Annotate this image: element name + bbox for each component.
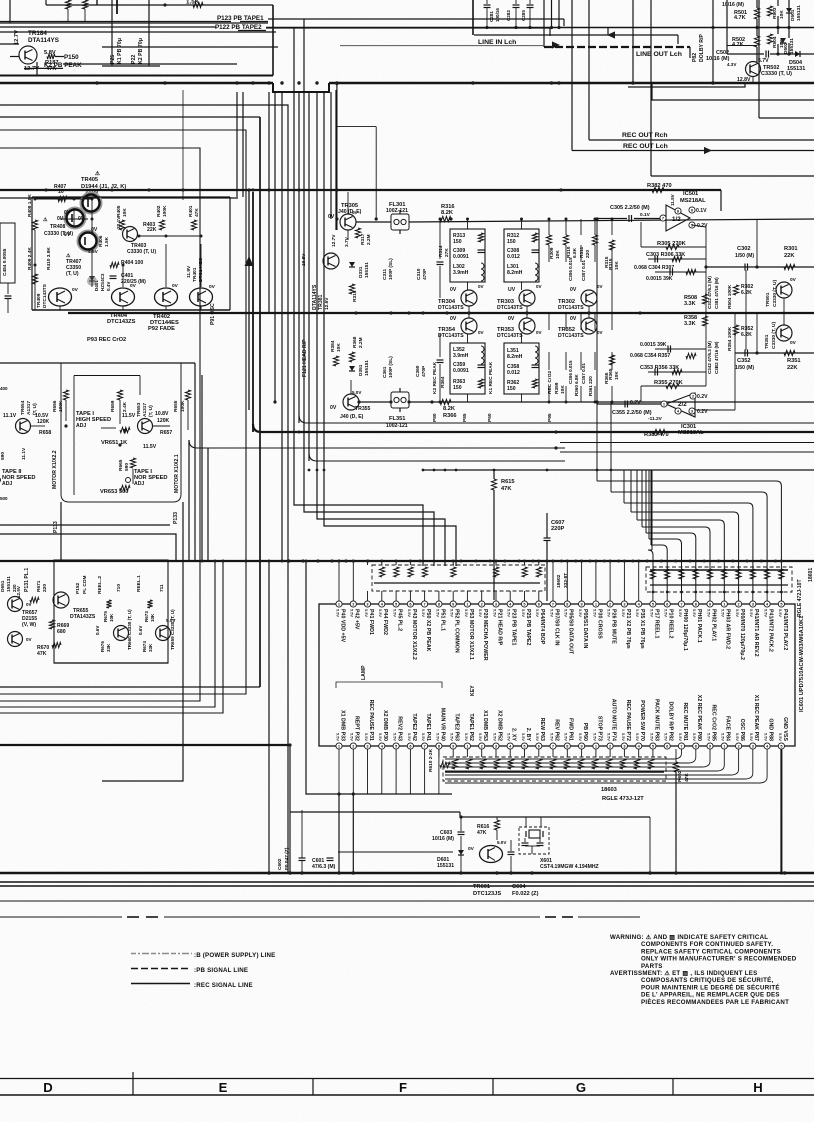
wire y176 right	[651, 175, 814, 177]
wire y27 left	[0, 26, 216, 28]
svg-text:4.7K: 4.7K	[734, 15, 746, 21]
network 18603 resistor 3	[480, 759, 485, 769]
svg-text:C3330 (T, U): C3330 (T, U)	[771, 321, 777, 349]
wire x789	[788, 0, 790, 8]
svg-text:C3B2 47/16 (M): C3B2 47/16 (M)	[714, 341, 719, 374]
svg-text:7: 7	[552, 743, 554, 748]
svg-text:R309: R309	[549, 247, 555, 259]
svg-text:10.8V: 10.8V	[301, 253, 307, 266]
network 18602 resistor 3	[408, 567, 413, 577]
network 18602 resistor 1	[380, 567, 385, 577]
svg-text:47K: 47K	[37, 651, 47, 657]
svg-text:C353 R356 33K: C353 R356 33K	[640, 365, 679, 371]
svg-text:150: 150	[453, 239, 462, 245]
svg-text:R401: R401	[188, 205, 194, 217]
wire loop y707	[0, 561, 215, 707]
svg-text:DTC143TS: DTC143TS	[558, 305, 584, 311]
svg-text:D351: D351	[358, 364, 364, 376]
svg-text:5.5V: 5.5V	[564, 733, 569, 741]
svg-text:47/6.3 (M): 47/6.3 (M)	[312, 864, 336, 870]
svg-text:P22: P22	[131, 55, 137, 64]
svg-text:DTC143TS: DTC143TS	[497, 305, 523, 311]
svg-text:5.5V: 5.5V	[607, 609, 612, 617]
svg-text:5.5V: 5.5V	[564, 609, 569, 617]
wire bottom right S curves	[445, 749, 682, 759]
wire y852	[338, 851, 453, 853]
svg-text:10K: 10K	[122, 208, 128, 217]
svg-text:K2 PB 70μ: K2 PB 70μ	[138, 38, 144, 64]
svg-text:0.2V: 0.2V	[630, 400, 641, 406]
svg-text:C302: C302	[737, 246, 751, 252]
svg-text:5.5V: 5.5V	[764, 609, 769, 617]
svg-text:0V: 0V	[330, 405, 337, 411]
svg-text:MOTOR X1/X2.2: MOTOR X1/X2.2	[52, 450, 58, 489]
svg-text:10.8V: 10.8V	[155, 411, 169, 417]
svg-text:PL COM: PL COM	[82, 575, 88, 594]
svg-text:2/2: 2/2	[678, 401, 687, 408]
wire motor inner box	[73, 376, 75, 496]
transistor TR303 DTC143TS	[519, 290, 535, 306]
svg-text:0V: 0V	[478, 284, 484, 289]
svg-text:P85: P85	[462, 413, 468, 422]
network 18603 resistor 8	[550, 759, 555, 769]
svg-text:COMPONENTS FOR CONTINUED SAFET: COMPONENTS FOR CONTINUED SAFETY.	[641, 941, 773, 948]
svg-text:D: D	[43, 1080, 52, 1095]
wire eq stubs top row	[467, 219, 469, 229]
svg-text:R657: R657	[160, 430, 172, 436]
svg-text:5.5V: 5.5V	[549, 733, 554, 741]
svg-text:A1317: A1317	[26, 401, 32, 415]
svg-text:C3330 (T, U): C3330 (T, U)	[127, 249, 156, 255]
svg-text:MS218AL: MS218AL	[680, 198, 706, 204]
svg-text:6.8K: 6.8K	[572, 247, 578, 258]
transistor TR351	[776, 325, 792, 341]
network 18603 resistor 2	[466, 759, 471, 769]
svg-text:TR405: TR405	[81, 177, 98, 183]
wire LINE OUT dashed	[544, 46, 690, 48]
svg-text:2: 2	[609, 601, 611, 606]
transistor TR353 DTC143TS	[519, 318, 535, 334]
svg-text:LINE OUT Lch: LINE OUT Lch	[636, 51, 682, 58]
svg-text:R384: R384	[330, 340, 336, 352]
wire motor internals	[65, 400, 67, 421]
svg-text:R405: R405	[116, 205, 122, 217]
svg-text:5.5V: 5.5V	[535, 609, 540, 617]
svg-text:3.9mH: 3.9mH	[453, 353, 469, 359]
grid tick x673	[672, 1079, 674, 1096]
capacitor C285	[527, 4, 534, 6]
network 18603 resistor 7	[536, 759, 541, 769]
svg-text:5.5V: 5.5V	[507, 733, 512, 741]
wire 18603 bus	[445, 771, 664, 773]
svg-text:5.5V: 5.5V	[621, 733, 626, 741]
svg-text:150: 150	[453, 385, 462, 391]
svg-text:RGLE 472J-10T: RGLE 472J-10T	[797, 579, 803, 617]
wire y118 right	[759, 117, 814, 119]
svg-text:0V: 0V	[790, 277, 797, 283]
svg-text:8.2mH: 8.2mH	[507, 270, 523, 276]
svg-text:REEL.1: REEL.1	[136, 575, 142, 592]
wire cascade risers	[623, 470, 625, 503]
svg-text:R305 270K: R305 270K	[657, 241, 687, 247]
resistor network RGLE 472J-10T dashed box	[646, 567, 792, 592]
svg-text:R673: R673	[144, 611, 149, 622]
svg-text:33K: 33K	[148, 643, 153, 652]
transistor TR501	[776, 282, 792, 298]
svg-text:0V: 0V	[72, 287, 79, 293]
wire vertical x713	[712, 0, 714, 83]
svg-text:4.3V: 4.3V	[727, 62, 736, 67]
network 472J resistor 3	[679, 569, 684, 579]
svg-text:0V: 0V	[570, 287, 577, 293]
wire row y54	[727, 53, 764, 55]
svg-text:DTC143TS: DTC143TS	[42, 284, 48, 308]
svg-text:5.5V: 5.5V	[364, 733, 369, 741]
wire vertical x589 REC OUT Rch	[588, 0, 590, 140]
junction dots TR cluster	[34, 198, 37, 201]
wire bundle x237	[236, 92, 238, 197]
svg-text:P131 PL.1: P131 PL.1	[24, 568, 30, 592]
wire x269 down	[268, 561, 270, 873]
svg-text:DTC123JS: DTC123JS	[473, 891, 501, 897]
wire left edge x8	[7, 283, 9, 294]
svg-text:0.0015 39K: 0.0015 39K	[640, 342, 667, 348]
network 472J resistor 7	[736, 569, 741, 579]
svg-text:0.1V: 0.1V	[696, 208, 707, 214]
svg-text:5.0V: 5.0V	[352, 390, 361, 395]
svg-text:C381 47/16 (M): C381 47/16 (M)	[714, 277, 719, 309]
network 18603 resistor 4	[494, 759, 499, 769]
svg-text:R504 100K: R504 100K	[727, 284, 733, 309]
svg-text:R361 220: R361 220	[588, 376, 593, 396]
svg-text:C311: C311	[382, 268, 388, 280]
wire bundle x299	[298, 92, 300, 423]
svg-text:TR654: TR654	[20, 400, 26, 415]
svg-text:150: 150	[507, 386, 516, 392]
wire bundle x304 v	[304, 19, 434, 566]
capacitor C281 100/16	[484, 4, 491, 6]
svg-text:33K: 33K	[106, 643, 111, 652]
network 18603 resistor 15	[648, 759, 653, 769]
svg-text:F0.022 (Z): F0.022 (Z)	[512, 891, 539, 897]
svg-text:R602: R602	[677, 770, 683, 782]
wire x183 v	[182, 90, 184, 200]
wire bridge y126	[337, 126, 376, 128]
svg-text:5.5V: 5.5V	[764, 733, 769, 741]
svg-text:5.5V: 5.5V	[678, 733, 683, 741]
svg-text:C310: C310	[416, 268, 422, 280]
svg-text:5.5V: 5.5V	[621, 609, 626, 617]
svg-text:18603: 18603	[601, 787, 617, 793]
svg-text:220: 220	[585, 250, 591, 258]
svg-text:P152: P152	[75, 582, 81, 594]
svg-text:5.5V: 5.5V	[492, 733, 497, 741]
svg-text:F0.047 (Z): F0.047 (Z)	[284, 847, 290, 870]
svg-text:1/50 (M): 1/50 (M)	[735, 365, 754, 371]
svg-text:5.5V: 5.5V	[692, 609, 697, 617]
svg-text:5.5V: 5.5V	[749, 609, 754, 617]
wire y100 right	[652, 83, 814, 100]
wire TR cluster box	[32, 196, 230, 198]
svg-text:VR651 1K: VR651 1K	[101, 440, 128, 446]
svg-text:1/2: 1/2	[672, 216, 681, 223]
svg-text:12.6V: 12.6V	[324, 297, 330, 310]
svg-text:10K: 10K	[560, 385, 566, 394]
svg-text:C307 0.01: C307 0.01	[581, 260, 586, 281]
svg-text:F: F	[399, 1080, 407, 1095]
svg-text:5.5V: 5.5V	[721, 609, 726, 617]
legend REC signal line	[131, 983, 190, 985]
svg-text:0V: 0V	[468, 846, 475, 852]
svg-text:REEL..2: REEL..2	[97, 576, 103, 594]
network 18603 resistor 11	[592, 759, 597, 769]
op-amp IC301 MS218AL 2/2	[666, 393, 695, 417]
svg-text:TR659 C3330 (T, U): TR659 C3330 (T, U)	[170, 609, 175, 650]
network 18603 resistor 14	[634, 759, 639, 769]
svg-text:5.5V: 5.5V	[635, 609, 640, 617]
wire thick bus y75	[0, 75, 273, 77]
svg-text:10K: 10K	[779, 10, 785, 19]
wire bundle x331 v	[330, 92, 332, 219]
svg-text:2: 2	[352, 601, 354, 606]
wire vertical x149	[148, 0, 150, 66]
svg-text:P150: P150	[64, 54, 79, 61]
svg-text:5.5V: 5.5V	[435, 609, 440, 617]
svg-text:5.0V: 5.0V	[166, 618, 175, 623]
svg-text:5.0V: 5.0V	[497, 840, 506, 845]
svg-text:D502: D502	[783, 42, 789, 54]
wire TR355 stub	[350, 380, 352, 394]
svg-text:2: 2	[738, 743, 740, 748]
svg-text:P92 FADE: P92 FADE	[148, 326, 175, 332]
wire 18602 bus	[374, 582, 540, 584]
svg-text:0V: 0V	[209, 284, 216, 290]
svg-text:PIÈCES RECOMMANDEES PAR LE FAB: PIÈCES RECOMMANDEES PAR LE FABRICANT	[641, 998, 789, 1006]
svg-text:120K: 120K	[37, 419, 50, 425]
svg-text:K1 PB 70μ: K1 PB 70μ	[117, 38, 123, 64]
svg-text:0V: 0V	[352, 210, 358, 215]
network 18602 resistor 2	[394, 567, 399, 577]
svg-text:TR408: TR408	[50, 224, 66, 230]
capacitor C282	[513, 4, 520, 6]
svg-text:RGLE 473J-12T: RGLE 473J-12T	[602, 796, 644, 802]
svg-text:10: 10	[58, 189, 64, 195]
wire vertical x651 top	[650, 0, 652, 28]
capacitor near TR601	[508, 851, 515, 853]
svg-text:LINE IN Lch: LINE IN Lch	[478, 39, 516, 46]
resistor network 18602 dashed box	[372, 565, 545, 591]
network 18603 resistor 5	[508, 759, 513, 769]
svg-text:R674: R674	[142, 641, 147, 652]
svg-text:5.5V: 5.5V	[378, 609, 383, 617]
svg-text:DTA143ZS: DTA143ZS	[70, 614, 96, 620]
svg-text:R365: R365	[608, 368, 614, 380]
svg-text:R368: R368	[352, 336, 358, 348]
svg-text:(T, U): (T, U)	[66, 271, 79, 277]
wire TR184 leads	[10, 56, 19, 58]
svg-text:C3330 (T, U): C3330 (T, U)	[44, 231, 73, 237]
svg-text:TR184: TR184	[28, 30, 47, 37]
wire thick bus y873	[0, 872, 814, 875]
wire x727	[726, 0, 728, 54]
svg-text::PB SIGNAL LINE: :PB SIGNAL LINE	[194, 967, 248, 974]
svg-text:R410 3.9K: R410 3.9K	[46, 247, 52, 270]
svg-text:D501: D501	[790, 9, 796, 21]
svg-text:4.7K: 4.7K	[732, 42, 744, 48]
svg-text:C602: C602	[277, 858, 283, 870]
svg-text:DTC143ZS: DTC143ZS	[107, 319, 136, 325]
svg-text:0.012: 0.012	[507, 254, 520, 260]
svg-text:2: 2	[481, 743, 483, 748]
svg-text:5.5V: 5.5V	[335, 609, 340, 617]
svg-text:REC OUT Lch: REC OUT Lch	[623, 143, 668, 150]
wire y27 thick mid	[266, 27, 608, 29]
svg-text:IC601 UPD7510ACW-W03/W6A10K1: IC601 UPD7510ACW-W03/W6A10K1	[799, 616, 805, 712]
svg-text:(V, W): (V, W)	[22, 622, 36, 628]
svg-text:C285: C285	[521, 10, 526, 21]
wire vertical x10	[9, 0, 11, 23]
svg-text:5.5V: 5.5V	[407, 733, 412, 741]
wire vertical x651	[650, 28, 652, 177]
wire cascade right above IC	[597, 481, 781, 592]
transistor TR407 dark	[78, 231, 98, 251]
svg-text:11.1V: 11.1V	[21, 447, 27, 460]
network 18603 resistor 1	[452, 759, 457, 769]
svg-text:0.0091: 0.0091	[453, 254, 469, 260]
grid tick x493	[492, 1079, 494, 1096]
svg-text:5.5V: 5.5V	[578, 733, 583, 741]
svg-text:R351: R351	[787, 358, 801, 364]
wire bundle x275	[274, 92, 276, 402]
transistor TR402	[155, 288, 178, 306]
wire x306 ic loop	[306, 561, 339, 794]
wire bundle x243	[242, 92, 244, 197]
svg-text:10K: 10K	[109, 613, 114, 622]
wire x612 col	[611, 262, 613, 313]
box reel section	[54, 560, 168, 663]
wire y525	[0, 524, 170, 526]
svg-text:D331: D331	[358, 266, 364, 278]
wire TR501 stub	[783, 298, 785, 313]
svg-text:5.5V: 5.5V	[664, 733, 669, 741]
wire loop y105	[0, 105, 288, 873]
svg-text:12.7V: 12.7V	[14, 30, 20, 45]
svg-text:POUR MAINTENIR LE DEGRÉ DE SÉC: POUR MAINTENIR LE DEGRÉ DE SÉCURITÉ	[641, 983, 780, 991]
svg-text:R301: R301	[784, 246, 798, 252]
wire vertical x551	[551, 0, 553, 28]
wire eq stubs rec row	[467, 334, 469, 343]
svg-text:5.5V: 5.5V	[350, 733, 355, 741]
wire bus y443	[560, 442, 814, 444]
wire y23 bus	[0, 22, 268, 24]
svg-text:47K: 47K	[477, 830, 487, 836]
IC601 top pins	[336, 601, 342, 607]
network 472J resistor 9	[765, 569, 770, 579]
svg-text:5.5V: 5.5V	[706, 733, 711, 741]
network 472J resistor 2	[665, 569, 670, 579]
legend B power supply line	[131, 953, 192, 955]
svg-text:COMPOSANTS CRITIQUES DE SÉCURI: COMPOSANTS CRITIQUES DE SÉCURITÉ,	[641, 976, 773, 984]
capacitor C484 0.0055	[0, 223, 15, 283]
svg-text:P95: P95	[547, 413, 553, 422]
svg-text:7: 7	[424, 601, 426, 606]
svg-text:TR409: TR409	[36, 293, 42, 308]
svg-text:REC OUT Rch: REC OUT Rch	[622, 132, 668, 139]
filter FL351 1002-121	[391, 392, 409, 408]
svg-text:2.4K: 2.4K	[122, 401, 128, 412]
wire REC OUT Rch	[589, 139, 814, 141]
svg-text:1/50 (M): 1/50 (M)	[735, 253, 754, 259]
svg-text:DE L' APPAREIL, NE REMPLACER Q: DE L' APPAREIL, NE REMPLACER QUE DES	[641, 992, 780, 999]
svg-text:R675: R675	[103, 611, 108, 622]
svg-text:5.5V: 5.5V	[749, 733, 754, 741]
svg-text:P80: P80	[432, 413, 438, 422]
svg-text:220: 220	[42, 584, 48, 592]
svg-text:7: 7	[424, 743, 426, 748]
svg-text:155131: 155131	[796, 5, 802, 21]
network 472J resistor 10	[779, 569, 784, 579]
svg-text:C361: C361	[382, 366, 388, 378]
grid tick x133	[132, 1072, 134, 1095]
svg-text:11.5V: 11.5V	[670, 194, 675, 206]
svg-text:K2 REC PEAK: K2 REC PEAK	[432, 361, 438, 394]
svg-text:DOLBY R/P: DOLBY R/P	[699, 34, 705, 62]
svg-text:5.5V: 5.5V	[464, 733, 469, 741]
arrow up x249	[245, 256, 254, 266]
label LAMP bracket	[336, 682, 442, 688]
transistor TR401	[190, 288, 213, 306]
wire thick bus y432	[253, 424, 814, 432]
svg-text:12.7V: 12.7V	[331, 234, 337, 247]
svg-text:11.1V: 11.1V	[3, 413, 17, 419]
svg-text:100/16: 100/16	[495, 8, 500, 22]
wire y32 bus	[0, 31, 276, 33]
svg-text:590: 590	[0, 452, 6, 460]
wire bus y470	[424, 469, 814, 471]
svg-text:0.6V: 0.6V	[95, 626, 100, 635]
svg-text:22K: 22K	[784, 253, 795, 259]
svg-text:5.5V: 5.5V	[421, 733, 426, 741]
svg-text:10K: 10K	[336, 343, 342, 352]
svg-text:10/16 (M): 10/16 (M)	[432, 836, 454, 842]
crystal X601 dashed box	[519, 827, 549, 854]
svg-text:5.5V: 5.5V	[664, 609, 669, 617]
svg-text:0V: 0V	[597, 330, 603, 335]
svg-text:5.5V: 5.5V	[735, 733, 740, 741]
svg-text:C356 0.015: C356 0.015	[568, 360, 573, 384]
network 18603 resistor 9	[564, 759, 569, 769]
wire bottom pin stubs	[438, 749, 440, 757]
svg-text:FL351: FL351	[389, 416, 405, 422]
svg-text:R656: R656	[52, 400, 58, 412]
svg-text:P133: P133	[173, 512, 179, 524]
svg-text:R310: R310	[566, 246, 572, 258]
wire x778	[777, 0, 779, 6]
svg-text:3.3K: 3.3K	[684, 301, 696, 307]
wire y534	[0, 534, 176, 560]
svg-text:10K: 10K	[555, 250, 561, 259]
svg-text:TR401: TR401	[192, 267, 198, 282]
svg-text:3.7V: 3.7V	[344, 236, 350, 247]
transistor TR302 DTC143TS	[581, 290, 597, 306]
wire loop y117	[0, 116, 260, 118]
wire reel bottom	[54, 662, 168, 664]
wire vertical x544	[543, 0, 545, 47]
svg-text:5.5V: 5.5V	[649, 609, 654, 617]
wire bus y886	[0, 885, 814, 887]
svg-text:-11.2V: -11.2V	[648, 416, 663, 422]
svg-text:5.5V: 5.5V	[778, 609, 783, 617]
